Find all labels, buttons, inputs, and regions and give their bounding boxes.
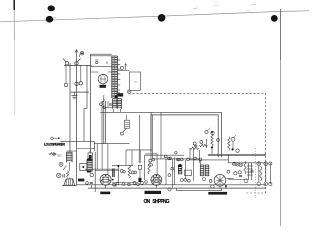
svg-text:500: 500 (57, 153, 62, 157)
svg-text:B: B (106, 61, 108, 65)
svg-text:xx: xx (134, 80, 138, 84)
svg-text:LOUDSPEAKER: LOUDSPEAKER (44, 142, 65, 146)
svg-text:SHPPNG: SHPPNG (152, 199, 169, 205)
svg-text:ON: ON (144, 199, 151, 205)
